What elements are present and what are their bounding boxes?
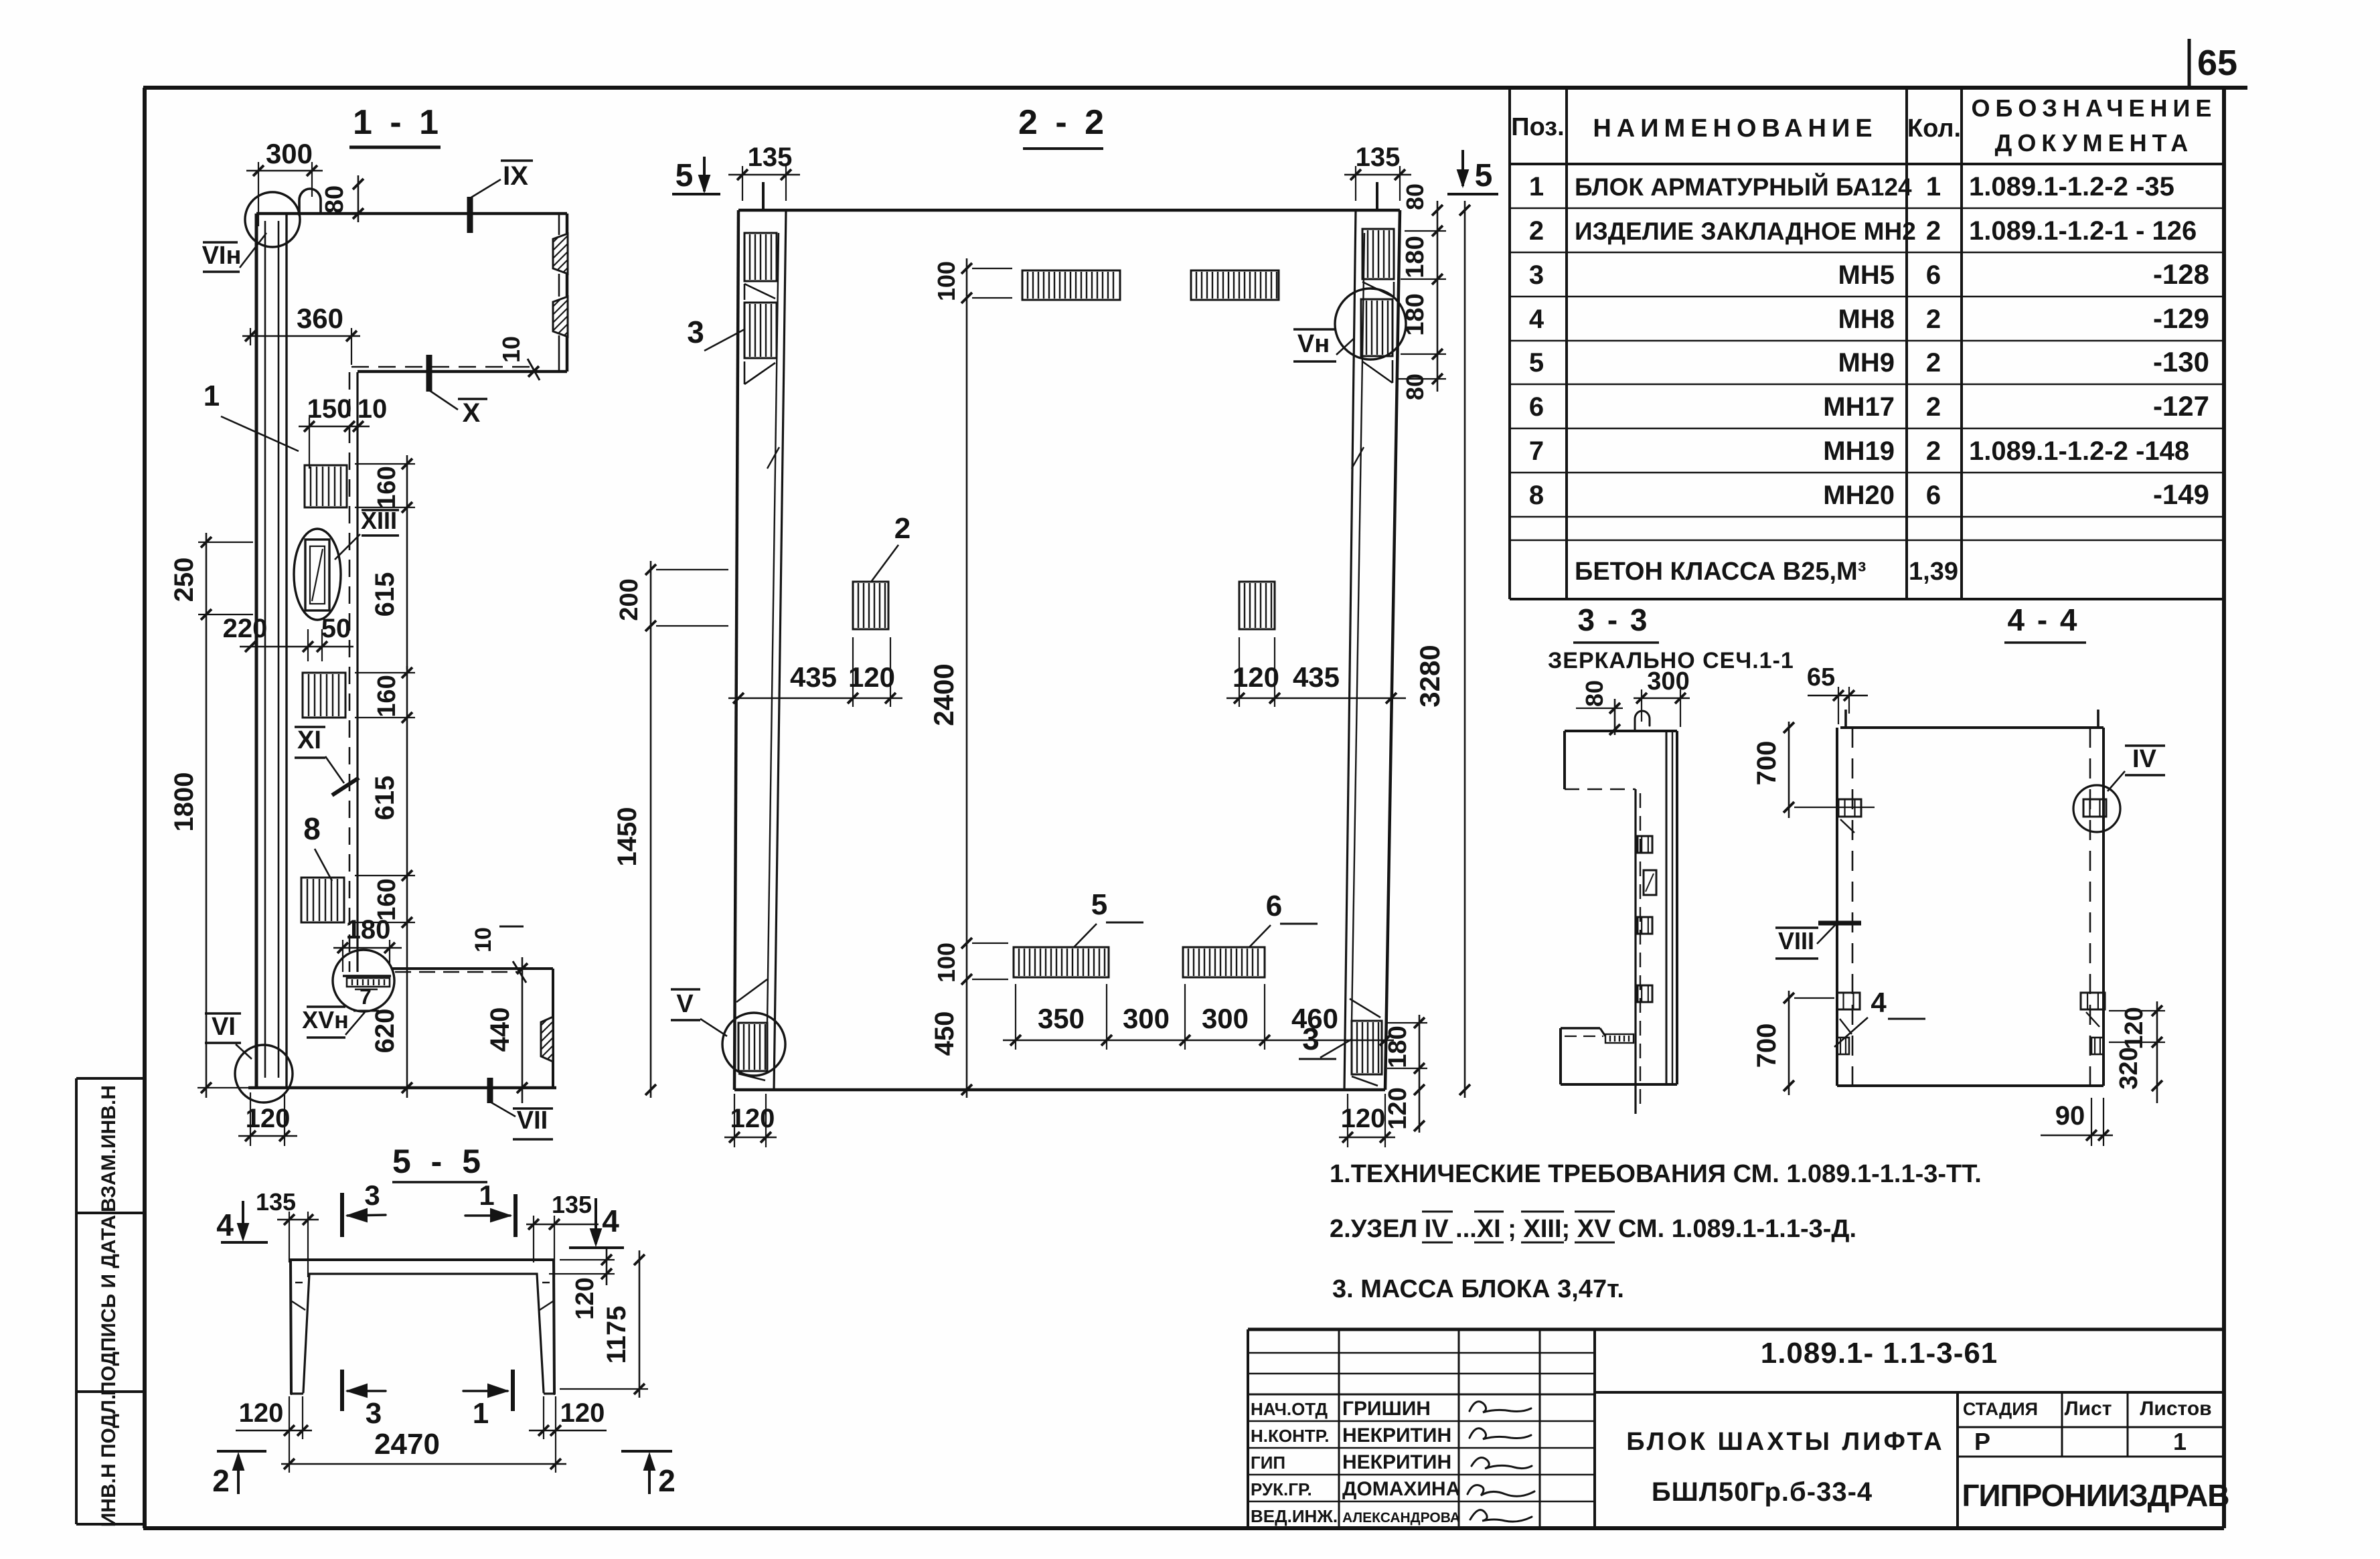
svg-text:7: 7 bbox=[1529, 436, 1544, 466]
svg-text:120: 120 bbox=[848, 661, 895, 693]
right wall plate b bbox=[1361, 299, 1393, 356]
svg-text:БЛОК ШАХТЫ ЛИФТА: БЛОК ШАХТЫ ЛИФТА bbox=[1626, 1428, 1945, 1456]
dim 120 320 right of 4-4 bbox=[2109, 1001, 2165, 1103]
svg-text:-149: -149 bbox=[2153, 479, 2209, 510]
svg-text:ГИП: ГИП bbox=[1251, 1453, 1285, 1473]
section marker VII bbox=[490, 1078, 553, 1139]
section 1-1 hook loop bbox=[299, 189, 321, 215]
section 1-1 wall hidden face dashed bbox=[349, 372, 351, 972]
svg-text:4: 4 bbox=[1871, 987, 1887, 1018]
title block name bbox=[1626, 1428, 1945, 1507]
dim 120 bottom right wall width bbox=[1339, 1094, 1395, 1147]
svg-text:80: 80 bbox=[1401, 183, 1429, 210]
dim 360 bbox=[242, 303, 360, 365]
dim 100 bottom bbox=[933, 934, 1008, 989]
svg-text:1800: 1800 bbox=[169, 772, 199, 832]
svg-text:3: 3 bbox=[687, 315, 704, 349]
svg-text:1: 1 bbox=[1529, 172, 1544, 201]
label Vn bbox=[1293, 329, 1354, 361]
svg-text:135: 135 bbox=[256, 1188, 296, 1216]
dim 300 top of section 1-1 bbox=[246, 138, 323, 226]
table row 4 bbox=[1529, 303, 2209, 334]
node circle V bbox=[722, 1013, 785, 1076]
svg-text:РУК.ГР.: РУК.ГР. bbox=[1251, 1479, 1312, 1499]
svg-text:IV: IV bbox=[2132, 745, 2157, 773]
svg-text:100: 100 bbox=[933, 942, 960, 983]
svg-text:ИНВ.Н ПОДЛ.: ИНВ.Н ПОДЛ. bbox=[98, 1394, 120, 1528]
left wall inner face bbox=[774, 210, 786, 1090]
svg-text:5: 5 bbox=[1529, 348, 1544, 378]
section 5-5 profile outer bbox=[291, 1260, 554, 1394]
svg-text:150: 150 bbox=[307, 394, 352, 424]
svg-text:2 - 2: 2 - 2 bbox=[1018, 103, 1108, 142]
section 3-3 bottom slab bbox=[1561, 1028, 1677, 1084]
dim 10 at slab right bbox=[497, 336, 540, 380]
dim 120 bottom right of 5-5 bbox=[529, 1396, 607, 1439]
dim 120 bottom left of 5-5 bbox=[236, 1396, 312, 1439]
svg-text:1: 1 bbox=[473, 1397, 489, 1430]
svg-text:ОБОЗНАЧЕНИЕ: ОБОЗНАЧЕНИЕ bbox=[1972, 94, 2217, 122]
svg-text:120: 120 bbox=[571, 1277, 599, 1319]
svg-text:1 - 1: 1 - 1 bbox=[353, 103, 443, 142]
label VIn bbox=[202, 233, 266, 272]
svg-text:1: 1 bbox=[1926, 172, 1941, 201]
svg-text:Vн: Vн bbox=[1297, 330, 1330, 358]
4-4 left wall solid bbox=[1836, 728, 1838, 1086]
svg-text:8: 8 bbox=[1529, 481, 1544, 510]
4-4 left wall dashed bbox=[1852, 728, 1854, 1086]
svg-text:80: 80 bbox=[1581, 680, 1608, 707]
table row 5 bbox=[1529, 346, 2209, 378]
svg-text:5: 5 bbox=[676, 158, 694, 193]
section 3-3 hook bbox=[1635, 711, 1650, 730]
svg-text:2470: 2470 bbox=[374, 1428, 440, 1461]
top plate left mid bbox=[1022, 270, 1120, 300]
dim 200 left bbox=[615, 561, 728, 637]
section marker 3 bottom bbox=[342, 1370, 386, 1430]
3-3 plate 3 bbox=[1638, 985, 1652, 1002]
label 8 bbox=[303, 811, 332, 881]
svg-text:10: 10 bbox=[358, 394, 388, 424]
4-4 left plate 2 bbox=[1837, 993, 1860, 1009]
dim 700 upper of 4-4 bbox=[1752, 722, 1875, 818]
dim 2470 bbox=[281, 1428, 566, 1473]
section 1-1 slab right edge bbox=[559, 214, 567, 372]
svg-text:50: 50 bbox=[321, 614, 351, 643]
dim 135 top left bbox=[728, 143, 800, 201]
dim 250 left bbox=[169, 533, 253, 624]
4-4 right bottom small plate bbox=[2091, 1038, 2104, 1054]
svg-text:1: 1 bbox=[2173, 1428, 2187, 1455]
svg-text:3 - 3: 3 - 3 bbox=[1577, 602, 1649, 637]
dim chain 80 180 180 80 right bbox=[1397, 183, 1446, 400]
section marker IX bbox=[470, 161, 533, 233]
svg-text:700: 700 bbox=[1752, 741, 1781, 786]
svg-text:180: 180 bbox=[1401, 293, 1429, 335]
5-5 left flange marks bbox=[292, 1283, 305, 1310]
svg-text:3: 3 bbox=[1302, 1021, 1320, 1056]
dim 450 bottom bbox=[930, 989, 972, 1098]
dim 65 top of 4-4 bbox=[1807, 663, 1868, 724]
label V bbox=[671, 989, 727, 1036]
svg-text:1.089.1-1.2-2 -148: 1.089.1-1.2-2 -148 bbox=[1969, 436, 2189, 466]
svg-text:700: 700 bbox=[1752, 1023, 1781, 1068]
dim 2400 bbox=[928, 308, 967, 934]
section 1-1 slab bottom edge bbox=[358, 370, 567, 374]
svg-text:2: 2 bbox=[658, 1463, 676, 1498]
plate XIII body bbox=[305, 540, 329, 610]
svg-text:VIн: VIн bbox=[202, 242, 242, 270]
svg-text:VII: VII bbox=[517, 1106, 548, 1135]
svg-text:АЛЕКСАНДРОВА: АЛЕКСАНДРОВА bbox=[1342, 1510, 1460, 1526]
svg-text:2: 2 bbox=[1926, 216, 1941, 246]
left wall bottom plate V bbox=[738, 1023, 767, 1071]
label 4 bbox=[1834, 987, 1925, 1047]
svg-text:V: V bbox=[676, 990, 694, 1018]
plate XIII oval bbox=[294, 529, 341, 620]
svg-text:2: 2 bbox=[212, 1463, 230, 1498]
svg-text:65: 65 bbox=[2197, 43, 2237, 83]
right wall inner face bbox=[1344, 210, 1356, 1090]
svg-text:ГИПРОНИИЗДРАВ: ГИПРОНИИЗДРАВ bbox=[1962, 1478, 2229, 1513]
svg-text:1: 1 bbox=[479, 1179, 494, 1211]
bottom hook plate 7 bbox=[343, 976, 391, 1011]
svg-text:МН20: МН20 bbox=[1823, 481, 1895, 510]
svg-text:180: 180 bbox=[1401, 236, 1429, 278]
4-4 right wall dashed bbox=[2089, 728, 2091, 1086]
dim 160 second bbox=[355, 666, 415, 726]
dim 80 of 3-3 bbox=[1576, 680, 1623, 735]
svg-text:160: 160 bbox=[373, 675, 401, 717]
label 2 bbox=[872, 512, 910, 581]
bottom plate left pos5 bbox=[1014, 947, 1109, 977]
svg-text:300: 300 bbox=[1123, 1003, 1170, 1034]
svg-text:80: 80 bbox=[1401, 374, 1429, 400]
dim 300 of 3-3 bbox=[1634, 667, 1690, 727]
right wall plate a bbox=[1362, 229, 1394, 279]
section marker X bbox=[429, 355, 487, 428]
svg-text:2: 2 bbox=[1926, 348, 1941, 378]
svg-text:300: 300 bbox=[1647, 667, 1689, 695]
label 6 bbox=[1249, 890, 1318, 947]
svg-text:320: 320 bbox=[2115, 1047, 2143, 1089]
table row concrete bbox=[1575, 558, 1958, 586]
right wall outer face bbox=[1385, 210, 1400, 1090]
dim 120 right of 5-5 bbox=[549, 1246, 615, 1320]
embedded plate row3 bbox=[301, 878, 344, 922]
dim 1450 left bbox=[613, 637, 656, 1098]
dim 160 first bbox=[355, 455, 415, 515]
svg-text:Поз.: Поз. bbox=[1511, 113, 1564, 141]
section 3-3 title bbox=[1548, 602, 1794, 673]
left margin stamp boxes bbox=[76, 1078, 145, 1527]
svg-text:120: 120 bbox=[560, 1398, 605, 1428]
4-4 left bottom small plate bbox=[1837, 1019, 1852, 1054]
table row 1 bbox=[1529, 172, 2174, 201]
svg-text:3280: 3280 bbox=[1414, 645, 1445, 707]
slab notch 1 bbox=[553, 234, 568, 274]
svg-text:БЕТОН КЛАССА В25,М³: БЕТОН КЛАССА В25,М³ bbox=[1575, 558, 1866, 586]
dim 135 top right of 5-5 bbox=[526, 1191, 599, 1277]
svg-text:-128: -128 bbox=[2153, 258, 2209, 290]
section 5-5 profile inner bbox=[303, 1274, 544, 1392]
dim 135 top left of 5-5 bbox=[256, 1188, 319, 1277]
mid plate left pos2 bbox=[853, 582, 888, 629]
svg-text:-127: -127 bbox=[2153, 390, 2209, 422]
svg-text:ВЗАМ.ИНВ.Н: ВЗАМ.ИНВ.Н bbox=[98, 1085, 120, 1212]
svg-text:1175: 1175 bbox=[602, 1306, 631, 1364]
right wall wedge a bbox=[1362, 282, 1394, 298]
section 1-1 bottom edge bbox=[248, 1086, 556, 1090]
dim 120 below bottom right bbox=[1384, 1078, 1425, 1133]
svg-text:БШЛ50Гр.б-33-4: БШЛ50Гр.б-33-4 bbox=[1652, 1477, 1873, 1507]
parts table grid bbox=[1510, 88, 2224, 599]
svg-text:2: 2 bbox=[1529, 216, 1544, 246]
section 1-1 rebar line b bbox=[278, 221, 280, 1078]
right wall top tick bbox=[1376, 182, 1378, 210]
svg-text:6: 6 bbox=[1266, 890, 1282, 922]
svg-text:2: 2 bbox=[1926, 392, 1941, 422]
svg-text:7: 7 bbox=[360, 985, 372, 1009]
svg-text:135: 135 bbox=[1356, 143, 1401, 172]
svg-text:120: 120 bbox=[246, 1104, 291, 1133]
svg-text:-130: -130 bbox=[2153, 346, 2209, 378]
dim 700 lower of 4-4 bbox=[1752, 991, 1834, 1095]
svg-text:65: 65 bbox=[1807, 663, 1835, 691]
label XI bbox=[295, 726, 359, 795]
svg-text:2400: 2400 bbox=[928, 663, 959, 726]
label XVn bbox=[302, 1006, 365, 1038]
svg-text:2: 2 bbox=[1926, 305, 1941, 334]
dim 135 top right bbox=[1344, 143, 1411, 201]
bottom plate right pos6 bbox=[1183, 947, 1265, 977]
left wall middle line bbox=[767, 233, 779, 1023]
svg-text:620: 620 bbox=[370, 1009, 400, 1054]
section 4-4 bottom edge bbox=[1837, 1084, 2104, 1087]
right wall middle line bbox=[1352, 233, 1364, 1023]
section 2-2 bottom edge bbox=[734, 1088, 1385, 1092]
svg-text:МН8: МН8 bbox=[1838, 305, 1895, 334]
right wall bottom plate 3 bbox=[1352, 1021, 1382, 1074]
svg-text:VI: VI bbox=[212, 1013, 236, 1041]
svg-text:3. МАССА БЛОКА 3,47т.: 3. МАССА БЛОКА 3,47т. bbox=[1332, 1275, 1624, 1303]
svg-text:ГРИШИН: ГРИШИН bbox=[1342, 1398, 1431, 1420]
dim 100 top bbox=[933, 258, 1012, 308]
section marker 5 down right bbox=[1447, 150, 1498, 194]
dim 1800 left bbox=[169, 624, 248, 1098]
svg-text:615: 615 bbox=[370, 572, 400, 617]
svg-text:360: 360 bbox=[297, 303, 343, 334]
table row 3 bbox=[1529, 258, 2209, 290]
svg-text:1.089.1-1.2-1 - 126: 1.089.1-1.2-1 - 126 bbox=[1969, 216, 2197, 246]
label 5 bbox=[1074, 888, 1143, 947]
embedded plate row2 bbox=[303, 673, 345, 718]
dim 80 top of section 1-1 bbox=[321, 175, 364, 222]
slab notch 2 bbox=[553, 297, 568, 337]
4-4 right wall solid bbox=[2102, 728, 2105, 1086]
svg-text:10: 10 bbox=[497, 336, 525, 363]
left wall plate a bbox=[744, 233, 777, 281]
svg-text:4: 4 bbox=[602, 1204, 619, 1238]
svg-text:615: 615 bbox=[370, 776, 400, 821]
svg-text:450: 450 bbox=[930, 1011, 959, 1056]
bottom slab top edge bbox=[391, 967, 553, 970]
svg-text:ДОКУМЕНТА: ДОКУМЕНТА bbox=[1995, 129, 2194, 157]
section marker 4 down left bbox=[216, 1201, 268, 1242]
svg-text:2.УЗЕЛ IV ...XI ; XIII; XV СМ: 2.УЗЕЛ IV ...XI ; XIII; XV СМ. 1.089.1-1… bbox=[1330, 1215, 1856, 1243]
svg-text:1: 1 bbox=[204, 380, 220, 412]
svg-text:3: 3 bbox=[364, 1179, 380, 1211]
dim 160 third bbox=[355, 867, 415, 932]
svg-text:ИЗДЕЛИЕ ЗАКЛАДНОЕ МН2: ИЗДЕЛИЕ ЗАКЛАДНОЕ МН2 bbox=[1575, 218, 1916, 245]
svg-text:435: 435 bbox=[790, 661, 837, 693]
bottom slab notch bbox=[541, 1017, 553, 1062]
dim 150 and 10 bbox=[299, 394, 387, 469]
svg-text:5: 5 bbox=[1091, 888, 1107, 921]
svg-text:100: 100 bbox=[933, 261, 960, 301]
section marker 1 bottom bbox=[463, 1370, 513, 1430]
dim 90 bottom of 4-4 bbox=[2041, 1098, 2113, 1146]
svg-text:Кол.: Кол. bbox=[1907, 114, 1961, 143]
leader label 1 armature block bbox=[204, 380, 299, 451]
svg-text:160: 160 bbox=[373, 466, 401, 508]
dim 120 435 right bottom bbox=[1226, 637, 1406, 707]
svg-text:НЕКРИТИН: НЕКРИТИН bbox=[1342, 1424, 1451, 1447]
section 3-3 wall dashed line bbox=[1640, 793, 1641, 1108]
dim 180 bottom hook bbox=[333, 915, 402, 972]
svg-text:435: 435 bbox=[1293, 661, 1340, 693]
dim 220 and 50 bbox=[223, 614, 353, 661]
section marker 1 top bbox=[465, 1179, 515, 1237]
svg-text:10: 10 bbox=[471, 927, 496, 953]
svg-text:Р: Р bbox=[1974, 1428, 1990, 1455]
4-4 top ticks bbox=[1846, 710, 2098, 728]
svg-text:6: 6 bbox=[1926, 260, 1941, 290]
label VI bbox=[205, 1013, 252, 1059]
svg-text:1,39: 1,39 bbox=[1909, 558, 1958, 586]
note 2 uzel bbox=[1330, 1212, 1856, 1243]
dim 615 first bbox=[370, 515, 407, 669]
label 3 left bbox=[687, 315, 744, 351]
3-3 plate XIII view bbox=[1644, 870, 1656, 895]
left wall top tick bbox=[762, 182, 765, 210]
left wall bottom wedge bbox=[736, 979, 767, 1080]
svg-text:80: 80 bbox=[321, 185, 349, 214]
svg-text:ВЕД.ИНЖ.: ВЕД.ИНЖ. bbox=[1251, 1506, 1338, 1526]
dim 180 bottom right wall bbox=[1384, 1015, 1427, 1078]
table header bbox=[1511, 94, 2217, 157]
label XIII bbox=[335, 507, 399, 560]
table row 2 bbox=[1529, 216, 2197, 246]
svg-text:2: 2 bbox=[894, 512, 910, 545]
node circle VI bbox=[235, 1045, 293, 1102]
section 1-1 wall outer face bbox=[255, 214, 258, 1088]
svg-text:2: 2 bbox=[1926, 436, 1941, 466]
svg-text:3: 3 bbox=[366, 1397, 382, 1430]
svg-text:1.089.1-1.2-2 -35: 1.089.1-1.2-2 -35 bbox=[1969, 172, 2174, 201]
dim 3280 bbox=[1414, 201, 1470, 1098]
svg-text:5: 5 bbox=[1475, 158, 1493, 193]
dim 10 bottom slab bbox=[471, 926, 526, 983]
svg-text:6: 6 bbox=[1529, 392, 1544, 422]
svg-text:4: 4 bbox=[1529, 305, 1544, 334]
section 3-3 top slab bbox=[1565, 731, 1677, 789]
section 1-1 wall channel face bbox=[356, 372, 358, 972]
section 2-2 top edge bbox=[738, 209, 1400, 212]
svg-text:НАИМЕНОВАНИЕ: НАИМЕНОВАНИЕ bbox=[1593, 114, 1877, 143]
signatures bbox=[1467, 1402, 1534, 1522]
left wall wedge b bbox=[744, 361, 779, 469]
title block signature rows bbox=[1251, 1398, 1460, 1526]
svg-text:4 - 4: 4 - 4 bbox=[2007, 602, 2079, 637]
4-4 right plate 2 bbox=[2081, 993, 2105, 1027]
svg-text:-129: -129 bbox=[2153, 303, 2209, 334]
3-3 plate 2 bbox=[1638, 917, 1652, 934]
section 1-1 slab hidden edge dashed bbox=[351, 366, 534, 368]
section 4-4 title bbox=[2004, 602, 2086, 643]
svg-text:180: 180 bbox=[346, 915, 391, 945]
dim 350 300 300 460 bbox=[1003, 984, 1394, 1050]
table row 8 bbox=[1529, 479, 2209, 510]
svg-text:БЛОК АРМАТУРНЫЙ БА124: БЛОК АРМАТУРНЫЙ БА124 bbox=[1575, 173, 1912, 201]
4-4 right plate 1 bbox=[2083, 799, 2106, 817]
label 3 bottom right bbox=[1299, 1021, 1352, 1059]
section 4-4 top edge bbox=[1840, 726, 2104, 729]
page number 65 bbox=[2189, 39, 2237, 88]
section 1-1 top slab top edge bbox=[256, 212, 567, 216]
3-3 plate 1 bbox=[1638, 836, 1652, 853]
section 1-1 title bbox=[349, 103, 443, 147]
dim 435 120 left bottom bbox=[728, 637, 902, 707]
section 2-2 title bbox=[1018, 103, 1108, 149]
svg-text:350: 350 bbox=[1038, 1003, 1085, 1034]
embedded plate row1 pos8 bbox=[305, 465, 347, 507]
dim 620 bbox=[370, 932, 412, 1098]
section marker VIII bbox=[1775, 923, 1861, 959]
section 5-5 title bbox=[392, 1143, 487, 1182]
bottom slab hidden dashed bbox=[395, 971, 520, 973]
mid plate right bbox=[1239, 582, 1275, 629]
dim 440 bbox=[485, 957, 528, 1103]
section marker 4 down right bbox=[569, 1198, 624, 1248]
svg-text:НАЧ.ОТД: НАЧ.ОТД bbox=[1251, 1399, 1328, 1419]
svg-text:МН17: МН17 bbox=[1823, 392, 1895, 422]
svg-text:IX: IX bbox=[503, 161, 528, 191]
svg-text:VIII: VIII bbox=[1778, 927, 1814, 955]
top plate right mid bbox=[1191, 270, 1279, 300]
svg-text:200: 200 bbox=[615, 578, 643, 621]
svg-text:Лист: Лист bbox=[2065, 1398, 2112, 1420]
svg-text:XI: XI bbox=[297, 726, 321, 754]
svg-text:4: 4 bbox=[216, 1208, 234, 1242]
svg-text:МН19: МН19 bbox=[1823, 436, 1895, 466]
svg-text:6: 6 bbox=[1926, 481, 1941, 510]
node circle Vn bbox=[1335, 289, 1406, 359]
node circle XVn bbox=[333, 950, 394, 1011]
svg-text:120: 120 bbox=[239, 1398, 284, 1428]
svg-text:МН5: МН5 bbox=[1838, 260, 1895, 290]
svg-text:ДОМАХИНА: ДОМАХИНА bbox=[1342, 1478, 1460, 1500]
node circle IV bbox=[2073, 785, 2120, 832]
section marker 2 up left bbox=[212, 1451, 266, 1498]
right wall wedge b bbox=[1352, 360, 1393, 469]
svg-text:X: X bbox=[463, 398, 481, 428]
svg-text:5 - 5: 5 - 5 bbox=[392, 1143, 486, 1180]
dim 120 bottom of 1-1 bbox=[238, 1092, 297, 1146]
table row 7 bbox=[1529, 436, 2189, 466]
5-5 left flange bottom bbox=[291, 1392, 303, 1394]
svg-text:НЕКРИТИН: НЕКРИТИН bbox=[1342, 1451, 1451, 1473]
